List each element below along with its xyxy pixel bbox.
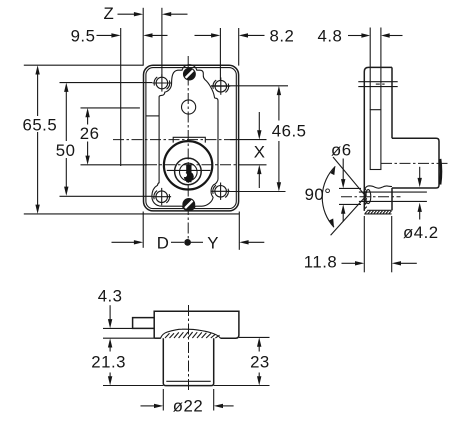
svg-text:23: 23 (250, 353, 270, 372)
svg-text:50: 50 (56, 141, 76, 160)
svg-text:D: D (157, 233, 170, 252)
svg-text:65.5: 65.5 (23, 115, 58, 134)
svg-text:X: X (254, 142, 266, 161)
svg-text:9.5: 9.5 (71, 27, 96, 46)
svg-text:21.3: 21.3 (91, 353, 126, 372)
svg-text:90°: 90° (305, 185, 332, 204)
svg-text:26: 26 (80, 124, 100, 143)
svg-text:4.3: 4.3 (98, 286, 123, 305)
svg-text:46.5: 46.5 (272, 121, 307, 140)
svg-text:ø4.2: ø4.2 (403, 223, 439, 242)
svg-text:Y: Y (207, 233, 219, 252)
svg-text:Z: Z (104, 4, 115, 23)
svg-text:4.8: 4.8 (318, 27, 343, 46)
svg-text:11.8: 11.8 (304, 253, 337, 272)
svg-text:ø22: ø22 (173, 397, 203, 416)
svg-text:ø6: ø6 (331, 141, 352, 160)
svg-text:8.2: 8.2 (270, 27, 295, 46)
